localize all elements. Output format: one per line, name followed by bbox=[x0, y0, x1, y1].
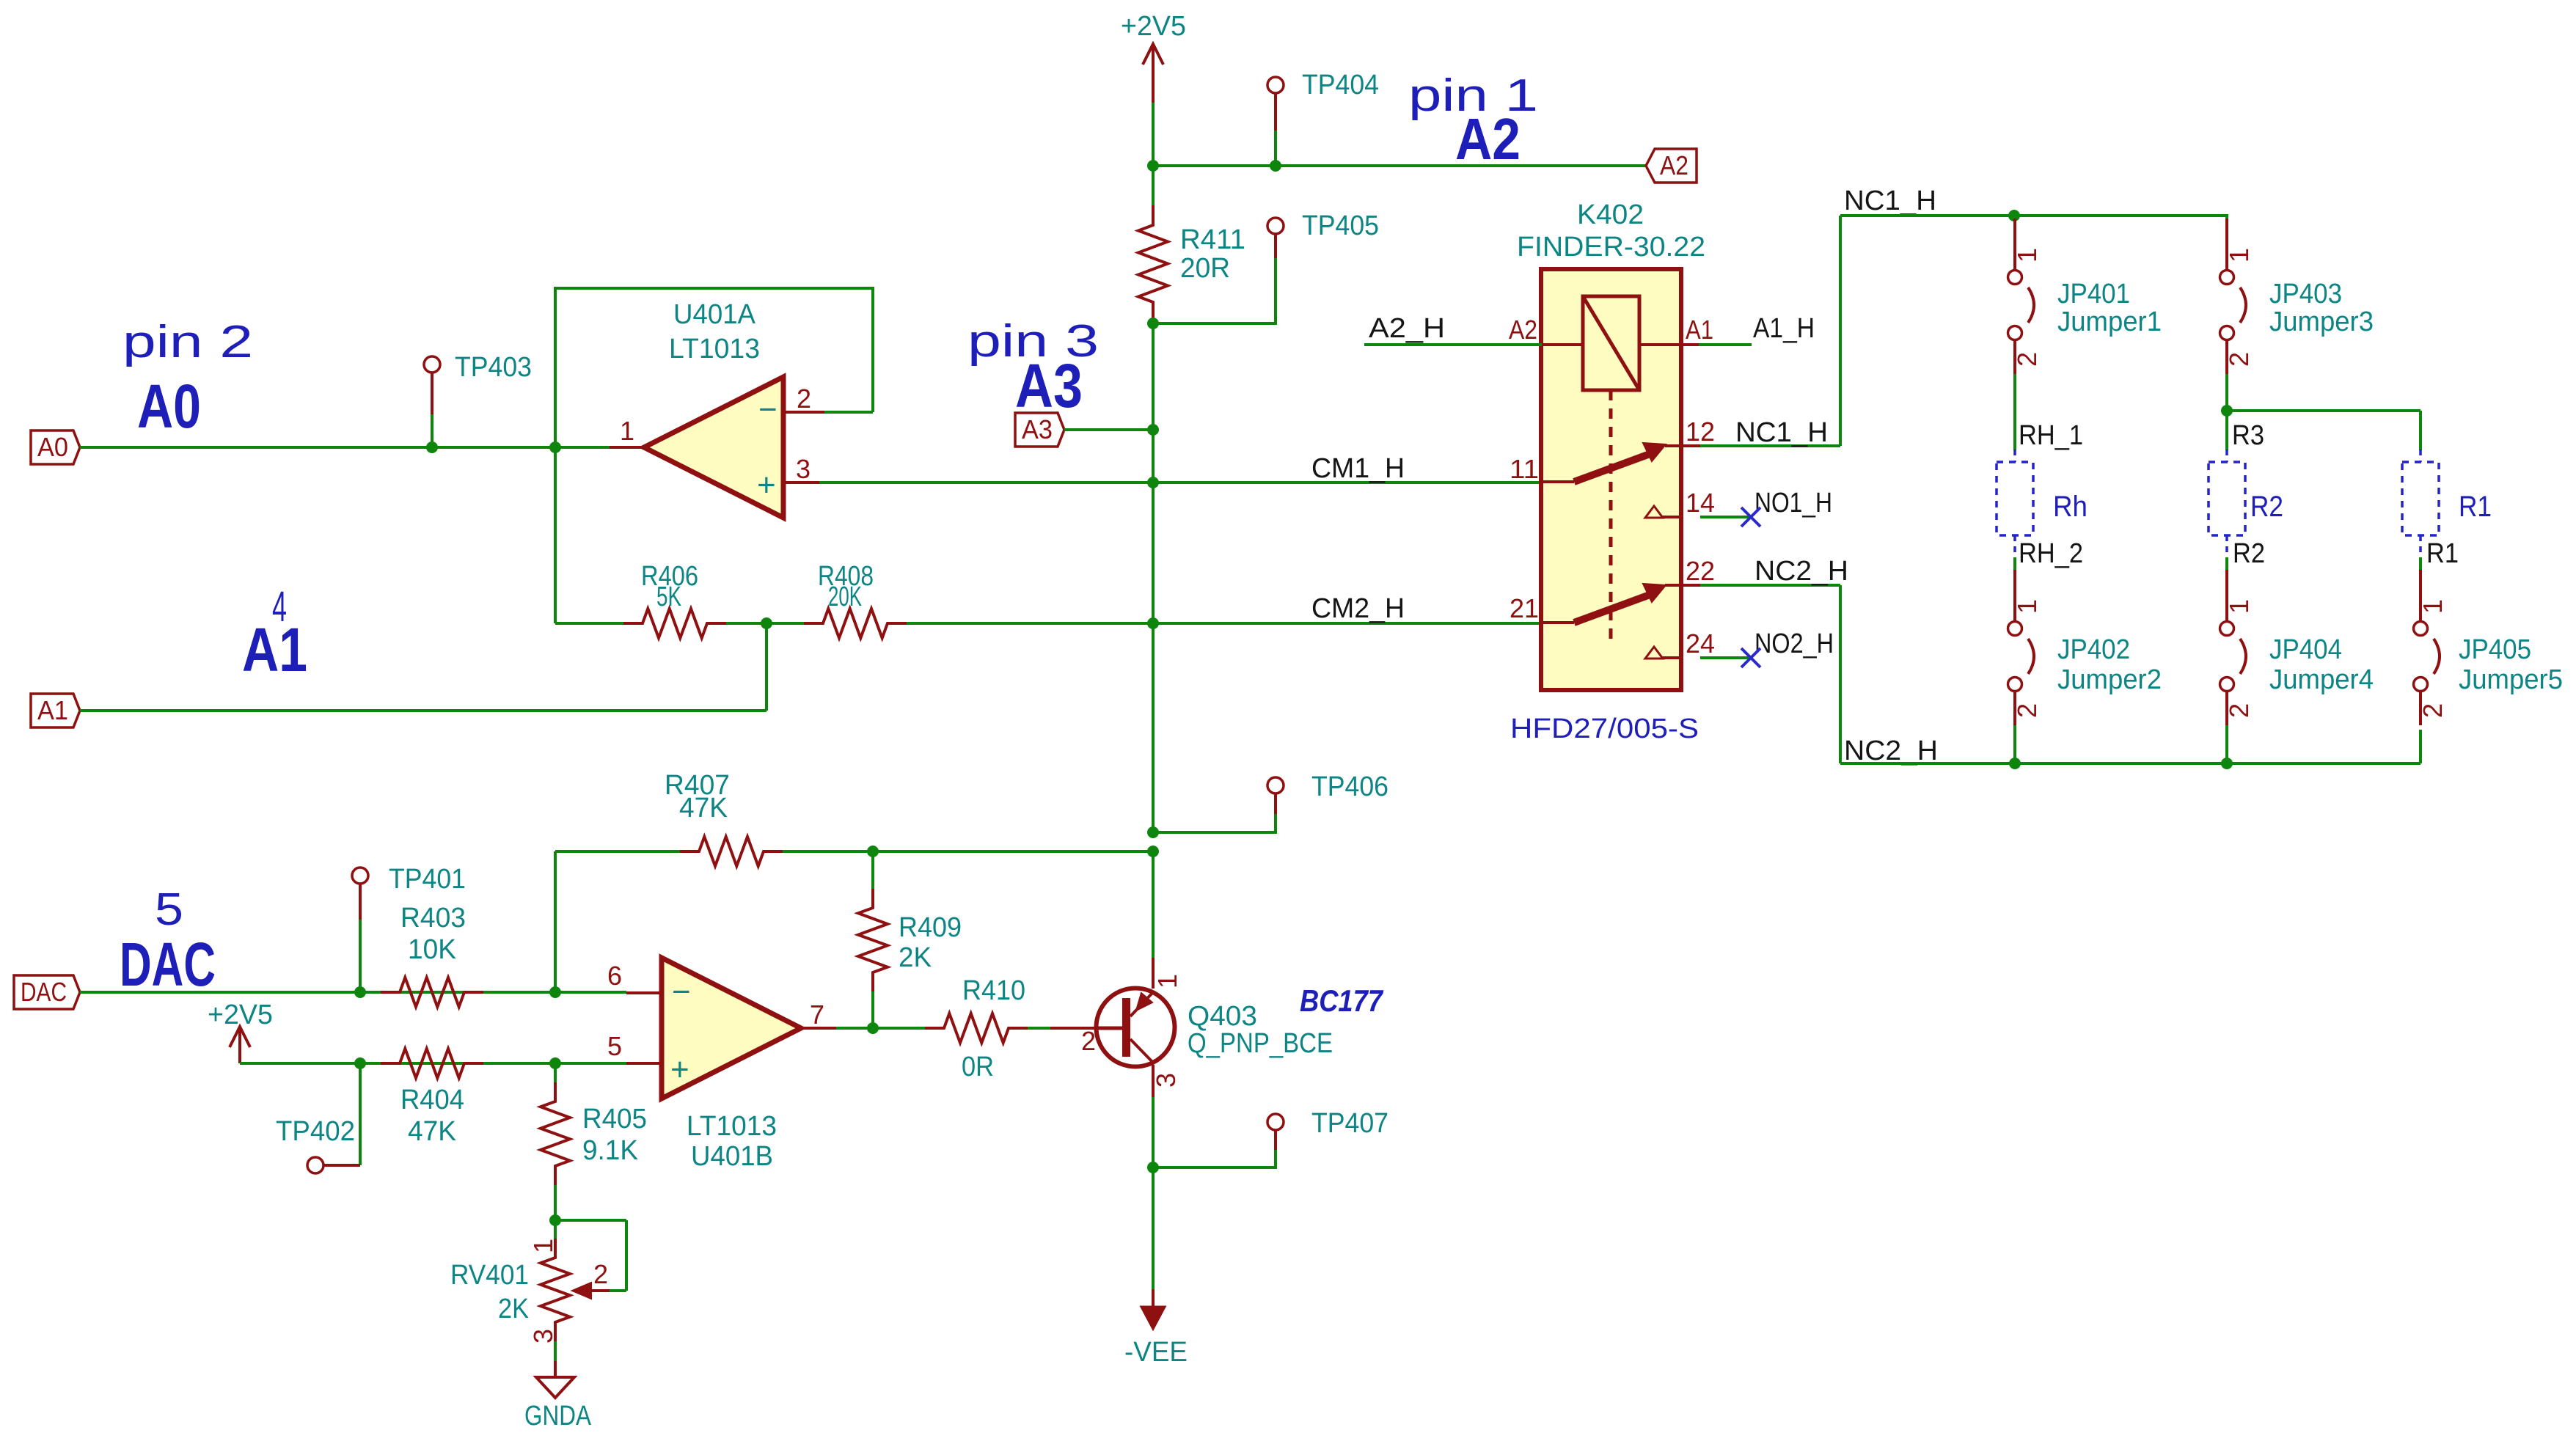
svg-text:TP407: TP407 bbox=[1311, 1108, 1388, 1139]
wire R1 to JP405 bbox=[2419, 557, 2422, 570]
svg-text:2K: 2K bbox=[899, 942, 932, 973]
wire CM2_H to relay pin 21 bbox=[907, 622, 1542, 625]
junction JP402 bottom bbox=[2009, 758, 2021, 769]
global label DAC bbox=[14, 975, 80, 1009]
svg-text:NC2_H: NC2_H bbox=[1754, 556, 1848, 587]
svg-text:HFD27/005-S: HFD27/005-S bbox=[1510, 714, 1699, 744]
wire NC1_H top rail bbox=[1840, 214, 2227, 217]
wire JP404 to NC2_H rail bbox=[2225, 725, 2228, 763]
wire NC1_H pin12 bbox=[1700, 216, 1840, 448]
svg-text:2: 2 bbox=[2012, 352, 2042, 367]
junction R406 R408 bbox=[726, 617, 805, 629]
wire R404 row bbox=[240, 1062, 626, 1065]
svg-text:5: 5 bbox=[155, 884, 183, 935]
svg-text:LT1013: LT1013 bbox=[687, 1111, 777, 1142]
note 4 bbox=[272, 583, 287, 631]
ground GNDA bbox=[524, 1361, 592, 1431]
svg-text:CM1_H: CM1_H bbox=[1311, 453, 1405, 484]
svg-text:R411: R411 bbox=[1180, 224, 1245, 255]
global label A1 bbox=[31, 694, 80, 727]
net label NC2_H bottom bbox=[1844, 736, 1938, 766]
relay switch arm 2 bbox=[1542, 584, 1666, 623]
svg-text:2: 2 bbox=[1081, 1026, 1096, 1056]
svg-text:pin 2: pin 2 bbox=[122, 317, 253, 367]
svg-text:21: 21 bbox=[1510, 593, 1539, 623]
relay part number HFD27/005-S bbox=[1510, 714, 1699, 744]
junction R409 top bbox=[867, 846, 879, 857]
power +2V5 top bbox=[1121, 11, 1186, 103]
relay pin A1 bbox=[1639, 315, 1713, 345]
svg-text:R405: R405 bbox=[582, 1104, 647, 1134]
wire JP403 to R3 node bbox=[2225, 374, 2228, 411]
svg-text:2: 2 bbox=[797, 384, 811, 414]
svg-text:1: 1 bbox=[2224, 599, 2254, 614]
svg-text:10K: 10K bbox=[408, 934, 456, 965]
svg-text:22: 22 bbox=[1686, 556, 1715, 586]
svg-text:7: 7 bbox=[810, 1000, 824, 1030]
junction TP401 bbox=[354, 986, 366, 998]
resistor Rh dashed box bbox=[1997, 450, 2087, 557]
net name A1 bold bbox=[242, 615, 307, 684]
svg-text:Jumper4: Jumper4 bbox=[2269, 664, 2374, 695]
svg-text:-VEE: -VEE bbox=[1124, 1337, 1188, 1368]
svg-text:A0: A0 bbox=[137, 372, 201, 441]
power -VEE bbox=[1124, 1289, 1188, 1368]
svg-text:Jumper2: Jumper2 bbox=[2057, 664, 2162, 695]
jumper JP404 bbox=[2220, 570, 2374, 725]
svg-text:RH_1: RH_1 bbox=[2019, 420, 2083, 451]
wire rail CM1 to CM2 bbox=[1152, 483, 1155, 623]
wire riser to R407 bbox=[554, 851, 557, 992]
wire pin1 node down to R406 bbox=[554, 447, 557, 623]
svg-text:JP403: JP403 bbox=[2269, 279, 2342, 309]
resistor R406 bbox=[555, 561, 726, 638]
svg-text:20R: 20R bbox=[1180, 253, 1230, 284]
junction JP404 bottom bbox=[2221, 758, 2233, 769]
svg-text:24: 24 bbox=[1686, 628, 1715, 659]
junction JP401 bbox=[2008, 210, 2020, 221]
jumper JP402 bbox=[2008, 570, 2162, 725]
part name BC177 bbox=[1300, 983, 1383, 1018]
svg-text:5K: 5K bbox=[656, 582, 681, 612]
junction RV401 top bbox=[549, 1214, 561, 1226]
resistor R409 bbox=[858, 851, 962, 1028]
relay pin 24 NO contact bbox=[1645, 628, 1715, 659]
svg-text:NC1_H: NC1_H bbox=[1735, 417, 1828, 448]
relay switch arm 1 bbox=[1542, 443, 1666, 482]
net label CM1_H bbox=[1311, 453, 1405, 484]
svg-text:A0: A0 bbox=[37, 432, 68, 462]
svg-text:TP403: TP403 bbox=[455, 352, 532, 383]
svg-text:1: 1 bbox=[1152, 974, 1182, 989]
no-connect X on NO2_H bbox=[1741, 648, 1760, 667]
svg-text:11: 11 bbox=[1510, 454, 1539, 484]
wire +2V5 rail down to A3 row bbox=[1152, 323, 1155, 430]
wire A2 row to R411 bbox=[1152, 166, 1155, 206]
svg-text:TP405: TP405 bbox=[1302, 210, 1379, 241]
svg-text:R2: R2 bbox=[2233, 538, 2265, 569]
junction TP405 row bbox=[1147, 318, 1159, 329]
junction pin7 R409 R410 bbox=[867, 1022, 879, 1034]
wire Rh to JP402 bbox=[2013, 557, 2016, 570]
test point TP407 bbox=[1153, 1108, 1388, 1167]
wire R3 node down to R2 bbox=[2225, 411, 2228, 450]
wire R3 row to R1 column bbox=[2227, 411, 2421, 450]
svg-text:JP401: JP401 bbox=[2057, 279, 2130, 309]
svg-text:6: 6 bbox=[607, 961, 622, 991]
svg-text:A1_H: A1_H bbox=[1753, 313, 1815, 344]
global label A0 bbox=[31, 430, 80, 464]
wire JP401 to Rh bbox=[2013, 374, 2016, 450]
feedback wire pin2 to pin1 bbox=[554, 288, 874, 449]
svg-text:FINDER-30.22: FINDER-30.22 bbox=[1517, 232, 1705, 263]
junction TP402 bbox=[354, 1057, 366, 1069]
resistor R407 bbox=[555, 770, 1153, 866]
jumper JP401 bbox=[2008, 219, 2162, 374]
op-amp U401B bbox=[662, 958, 801, 1172]
note pin 2 bbox=[122, 317, 253, 367]
net label A1_H and wire bbox=[1681, 313, 1815, 345]
net label RH_1 bbox=[2019, 420, 2083, 451]
wire JP402 to NC2_H rail bbox=[2013, 725, 2016, 763]
svg-text:DAC: DAC bbox=[21, 977, 67, 1007]
pin 6 of U401B bbox=[607, 961, 662, 993]
wire CM1_H pin3 to relay pin 11 bbox=[819, 481, 1542, 484]
wire pin7 to R410 bbox=[836, 1027, 927, 1030]
svg-text:A3: A3 bbox=[1022, 414, 1053, 444]
test point TP406 bbox=[1153, 771, 1388, 832]
relay K402 body bbox=[1517, 199, 1705, 690]
wire NO1_H pin14 bbox=[1700, 488, 1832, 518]
pin 5 of U401B bbox=[607, 1031, 662, 1063]
svg-text:GNDA: GNDA bbox=[524, 1401, 592, 1431]
relay coil bbox=[1583, 296, 1639, 390]
test point TP403 bbox=[424, 352, 532, 447]
net label NC1_H top bbox=[1844, 186, 1936, 216]
svg-text:TP406: TP406 bbox=[1311, 771, 1388, 802]
svg-text:A2: A2 bbox=[1509, 315, 1537, 345]
net name DAC bold bbox=[120, 930, 216, 999]
junction TP404 bbox=[1270, 160, 1281, 172]
pin 1 of U401A bbox=[610, 416, 643, 447]
relay pin 14 NO contact bbox=[1645, 488, 1715, 518]
wire rail CM2 to TP406 row bbox=[1152, 623, 1155, 832]
svg-text:2K: 2K bbox=[498, 1294, 529, 1324]
junction A2 row bbox=[1147, 160, 1159, 172]
global label A2 bbox=[1646, 149, 1697, 183]
wire A2 row bbox=[1153, 164, 1646, 167]
junction CM2_H bbox=[1147, 617, 1159, 629]
resistor R2 dashed box bbox=[2209, 450, 2283, 557]
svg-text:R404: R404 bbox=[400, 1085, 464, 1115]
svg-text:1: 1 bbox=[528, 1239, 558, 1253]
svg-text:TP404: TP404 bbox=[1302, 70, 1379, 100]
wire R410 to Q403 base bbox=[1028, 1027, 1050, 1030]
svg-text:Jumper3: Jumper3 bbox=[2269, 307, 2374, 337]
junction R405 top bbox=[549, 1057, 561, 1069]
svg-text:Q_PNP_BCE: Q_PNP_BCE bbox=[1188, 1028, 1333, 1059]
wire A1 to R406/R408 node bbox=[80, 623, 766, 711]
svg-text:K402: K402 bbox=[1577, 199, 1644, 230]
transistor Q403 bbox=[1050, 974, 1333, 1088]
net label R1 bbox=[2426, 538, 2459, 569]
junction op-amp input bbox=[549, 441, 561, 453]
net label CM2_H bbox=[1311, 593, 1405, 624]
resistor R411 bbox=[1138, 205, 1245, 323]
svg-text:R410: R410 bbox=[962, 975, 1025, 1006]
svg-text:LT1013: LT1013 bbox=[669, 334, 760, 364]
svg-text:A1: A1 bbox=[242, 615, 307, 684]
net name A3 bold bbox=[1015, 351, 1083, 420]
potentiometer RV401 bbox=[450, 1220, 626, 1361]
svg-text:3: 3 bbox=[528, 1329, 558, 1343]
test point TP402 bbox=[276, 1063, 360, 1173]
svg-text:1: 1 bbox=[2012, 599, 2042, 614]
wire to -VEE bbox=[1152, 1167, 1155, 1289]
resistor R408 bbox=[804, 561, 907, 638]
net label R3 bbox=[2232, 420, 2264, 451]
op-amp U401A bbox=[644, 299, 783, 518]
net label R2 bbox=[2233, 538, 2265, 569]
svg-text:−: − bbox=[672, 974, 691, 1010]
svg-text:R409: R409 bbox=[899, 912, 962, 943]
svg-text:Q403: Q403 bbox=[1188, 1001, 1257, 1032]
svg-text:2: 2 bbox=[2224, 703, 2254, 718]
no-connect X on NO1_H bbox=[1741, 507, 1760, 527]
svg-text:47K: 47K bbox=[679, 793, 728, 824]
wire rail A3 to CM1 bbox=[1152, 430, 1155, 483]
note pin 3 bbox=[967, 316, 1099, 367]
resistor R1 dashed box bbox=[2402, 450, 2492, 557]
svg-text:U401A: U401A bbox=[673, 299, 756, 330]
svg-text:TP401: TP401 bbox=[389, 864, 466, 895]
svg-text:3: 3 bbox=[796, 454, 811, 484]
svg-text:U401B: U401B bbox=[691, 1141, 773, 1172]
wire +2V5 down to A2 row bbox=[1152, 103, 1155, 166]
svg-text:R3: R3 bbox=[2232, 420, 2264, 451]
svg-text:CM2_H: CM2_H bbox=[1311, 593, 1405, 624]
wire A0 to op-amp bbox=[80, 446, 643, 449]
svg-text:1: 1 bbox=[2418, 599, 2448, 614]
net label RH_2 bbox=[2019, 538, 2083, 569]
svg-text:A1: A1 bbox=[1686, 315, 1713, 345]
svg-text:−: − bbox=[758, 392, 777, 428]
svg-text:JP404: JP404 bbox=[2269, 634, 2342, 665]
svg-text:47K: 47K bbox=[408, 1116, 456, 1147]
svg-text:NC1_H: NC1_H bbox=[1844, 186, 1936, 216]
svg-text:R403: R403 bbox=[400, 903, 466, 934]
emitter wire to TP407 bbox=[1152, 1065, 1155, 1167]
svg-text:20K: 20K bbox=[828, 582, 862, 612]
svg-text:R2: R2 bbox=[2250, 491, 2283, 523]
test point TP404 bbox=[1267, 70, 1379, 166]
svg-text:JP405: JP405 bbox=[2459, 634, 2531, 665]
svg-text:12: 12 bbox=[1686, 417, 1715, 447]
net name A0 bold bbox=[137, 372, 201, 441]
svg-text:NC2_H: NC2_H bbox=[1844, 736, 1938, 766]
svg-text:1: 1 bbox=[2012, 248, 2042, 263]
svg-text:NO2_H: NO2_H bbox=[1754, 628, 1834, 659]
svg-text:2: 2 bbox=[2012, 703, 2042, 718]
junction A3 bbox=[1147, 424, 1159, 436]
svg-text:2: 2 bbox=[593, 1259, 608, 1289]
svg-text:9.1K: 9.1K bbox=[582, 1135, 638, 1166]
pin 7 of U401B bbox=[801, 1000, 836, 1030]
svg-text:R1: R1 bbox=[2426, 538, 2459, 569]
svg-text:2: 2 bbox=[2224, 352, 2254, 367]
wire JP405 to NC2_H rail bbox=[2419, 730, 2422, 763]
net name A2 bold bbox=[1455, 106, 1521, 172]
relay pin 12 bbox=[1665, 417, 1715, 447]
junction TP406 row bbox=[1147, 826, 1159, 838]
resistor R410 bbox=[925, 975, 1028, 1082]
relay pin 21 number bbox=[1510, 593, 1539, 623]
svg-text:5: 5 bbox=[607, 1031, 622, 1061]
junction TP403 bbox=[426, 441, 438, 453]
wire R2 to JP404 bbox=[2225, 557, 2228, 570]
svg-text:Rh: Rh bbox=[2053, 491, 2087, 523]
svg-text:A2_H: A2_H bbox=[1369, 313, 1445, 344]
jumper JP405 bbox=[2414, 570, 2564, 725]
wire DAC to op-amp pin6 bbox=[80, 991, 626, 994]
junction R407 at rail bbox=[1147, 846, 1159, 857]
jumper JP403 bbox=[2220, 219, 2374, 374]
junction R3 bbox=[2221, 405, 2233, 417]
svg-text:A2: A2 bbox=[1660, 150, 1688, 180]
pin 2 of U401A bbox=[783, 384, 824, 414]
relay dashed actuator line bbox=[1609, 390, 1613, 644]
svg-text:+2V5: +2V5 bbox=[1121, 11, 1186, 42]
note 5 bbox=[155, 884, 183, 935]
svg-text:JP402: JP402 bbox=[2057, 634, 2130, 665]
wire NO2_H pin24 bbox=[1700, 628, 1834, 659]
junction R403 R407 riser bbox=[549, 986, 561, 998]
svg-text:RV401: RV401 bbox=[450, 1260, 529, 1291]
svg-text:RH_2: RH_2 bbox=[2019, 538, 2083, 569]
svg-text:14: 14 bbox=[1686, 488, 1715, 518]
svg-text:0R: 0R bbox=[962, 1052, 994, 1082]
relay pin 11 number bbox=[1510, 454, 1539, 484]
test point TP405 bbox=[1153, 210, 1379, 323]
svg-text:+: + bbox=[670, 1052, 689, 1088]
wire NC2_H bottom rail bbox=[1840, 762, 2421, 765]
relay pin 22 bbox=[1665, 556, 1715, 586]
svg-text:2: 2 bbox=[2418, 703, 2448, 718]
wire NC2_H pin22 bbox=[1700, 556, 1848, 763]
junction CM1_H bbox=[1147, 477, 1159, 488]
svg-text:3: 3 bbox=[1151, 1073, 1181, 1088]
resistor R405 bbox=[541, 1063, 647, 1220]
net label A2_H and wire bbox=[1364, 313, 1542, 345]
svg-text:A3: A3 bbox=[1015, 351, 1083, 420]
svg-text:NO1_H: NO1_H bbox=[1754, 488, 1832, 518]
junction TP407 row bbox=[1147, 1162, 1159, 1173]
svg-text:+: + bbox=[757, 467, 776, 503]
svg-text:Jumper5: Jumper5 bbox=[2459, 664, 2563, 695]
svg-text:DAC: DAC bbox=[120, 930, 216, 999]
wire JP403 corner down bbox=[2225, 214, 2228, 220]
test point TP401 bbox=[352, 864, 466, 992]
svg-text:1: 1 bbox=[620, 416, 634, 446]
power +2V5 at R404 bbox=[208, 1000, 273, 1063]
global label A3 bbox=[1015, 413, 1064, 447]
svg-text:BC177: BC177 bbox=[1300, 983, 1383, 1018]
svg-text:1: 1 bbox=[2224, 248, 2254, 263]
svg-text:A1: A1 bbox=[37, 695, 68, 725]
relay pin A2 bbox=[1509, 315, 1583, 345]
wire A3 to rail bbox=[1064, 428, 1153, 431]
svg-text:Jumper1: Jumper1 bbox=[2057, 307, 2162, 337]
resistor R404 bbox=[381, 1049, 483, 1147]
svg-text:A2: A2 bbox=[1455, 106, 1521, 172]
svg-text:TP402: TP402 bbox=[276, 1116, 355, 1147]
collector pin wire bbox=[1152, 851, 1155, 989]
note pin 1 bbox=[1408, 70, 1538, 121]
svg-text:R1: R1 bbox=[2459, 491, 2492, 523]
pin 3 of U401A bbox=[783, 454, 819, 484]
resistor R403 bbox=[381, 903, 483, 1007]
